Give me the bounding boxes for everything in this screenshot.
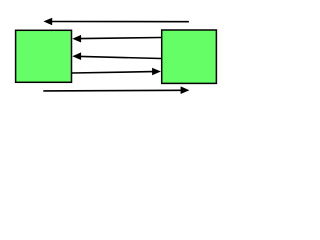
arrowhead: lower middle arrow pointing right	[152, 68, 161, 76]
wire: top arrow line	[52, 21, 189, 23]
wire: middle arrow line (into left box)	[81, 56, 162, 58]
wire: bottom arrow line	[43, 89, 181, 92]
arrowhead: bottom arrow pointing right	[181, 86, 190, 94]
arrowhead: top arrow pointing left	[43, 18, 52, 26]
left box (host A)	[16, 30, 72, 82]
wire: upper middle arrow line (into left box)	[81, 38, 162, 39]
arrowhead: upper middle arrow pointing left	[72, 35, 81, 43]
wire: lower middle arrow line (into right box)	[72, 72, 153, 73]
right box (host B)	[162, 30, 217, 83]
arrowhead: middle arrow pointing left	[72, 52, 81, 60]
